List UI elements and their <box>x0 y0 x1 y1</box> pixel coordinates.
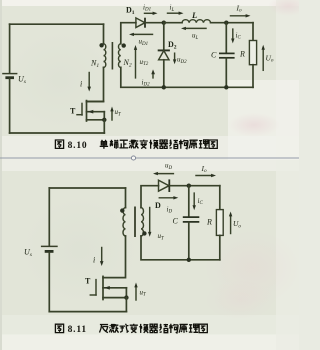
svg-text:L: L <box>191 10 197 20</box>
label N1 <box>90 59 99 70</box>
battery Us <box>2 24 17 133</box>
svg-text:i: i <box>80 80 82 89</box>
node dot D2 bottom <box>162 85 166 89</box>
label Us <box>18 75 26 86</box>
label uL <box>192 32 199 41</box>
svg-text:R: R <box>239 49 245 58</box>
current arrow iD (8.11) <box>159 196 178 199</box>
label D1 <box>126 6 135 17</box>
current arrow Io <box>231 14 251 17</box>
current arrow i <box>87 73 91 92</box>
label D2 <box>168 40 177 51</box>
capacitor C <box>219 23 235 88</box>
label C (8.11) <box>173 216 179 225</box>
label uT secondary (8.11) <box>158 232 166 241</box>
voltage arrow uT secondary (8.11) <box>148 208 151 237</box>
label T <box>70 107 76 116</box>
label iD2 <box>142 78 151 87</box>
wire bottom rail primary <box>10 132 105 134</box>
wire top rail primary (fig 8.11) <box>49 187 125 189</box>
label C <box>211 51 217 60</box>
svg-text:8.10: 8.10 <box>68 141 88 151</box>
svg-text:T: T <box>85 277 91 286</box>
label i <box>80 80 82 89</box>
label uT2 <box>140 58 149 67</box>
transformer winding N2 <box>119 44 121 68</box>
label uT mosfet (8.11) <box>140 288 148 297</box>
label uD2 <box>177 56 187 65</box>
svg-text:C: C <box>211 51 217 60</box>
node dot D-C junction (8.11) <box>187 184 191 188</box>
divider circle mark <box>131 156 135 160</box>
node dot D1-D2 junction <box>162 21 166 25</box>
resistor R (8.11) <box>216 186 223 260</box>
label uT <box>115 108 123 117</box>
label iL <box>170 4 175 13</box>
svg-text:i: i <box>93 256 95 265</box>
voltage arrow uD1 <box>129 33 153 36</box>
page divider rule <box>0 157 299 159</box>
wire top rail primary (fig 8.10) <box>10 23 104 25</box>
label L <box>191 10 197 20</box>
node dot C bottom (8.11) <box>187 258 191 262</box>
svg-text:C: C <box>173 216 179 225</box>
voltage arrow Uo (8.11) <box>229 212 232 234</box>
label uD (8.11) <box>165 162 173 171</box>
label N2 <box>123 58 132 69</box>
voltage arrow uT mosfet (8.11) <box>134 283 137 301</box>
node dot C bottom <box>224 85 228 89</box>
voltage arrow uD2 <box>173 53 176 64</box>
inductor L <box>164 20 253 23</box>
label Us (8.11) <box>24 248 32 259</box>
current arrow iD2 <box>151 69 155 78</box>
current arrow iD1 <box>145 12 158 15</box>
transformer winding N1 <box>104 44 106 68</box>
voltage arrow Uo <box>262 45 265 71</box>
label iD1 <box>143 3 151 12</box>
MOSFET T (8.11) <box>90 276 128 311</box>
wire bottom rail primary (8.11) <box>49 311 126 313</box>
wire primary top lead <box>103 24 105 44</box>
wire primary top lead (8.11) <box>125 188 127 208</box>
capacitor C (8.11) <box>183 186 200 260</box>
label Uo (8.11) <box>233 219 241 229</box>
label D (8.11) <box>155 201 161 210</box>
caption figure 8.11 <box>55 324 207 335</box>
current arrow i (8.11) <box>100 248 104 267</box>
wire primary bottom lead to drain (8.11) <box>103 236 126 278</box>
polarity dot primary <box>99 43 103 47</box>
wire primary bottom lead to drain <box>87 67 104 101</box>
current arrow iC (8.11) <box>193 193 196 210</box>
voltage arrow uT2 <box>134 45 137 78</box>
label R (8.11) <box>206 218 212 227</box>
label i (8.11) <box>93 256 95 265</box>
label T (8.11) <box>85 277 91 286</box>
current arrow Io (8.11) <box>196 174 216 177</box>
label uD1 <box>139 38 149 47</box>
diode D (8.11) <box>159 179 220 192</box>
wire bottom rail secondary <box>121 67 253 87</box>
label R <box>239 49 245 58</box>
label Io <box>236 3 243 13</box>
current arrow iC <box>231 29 234 43</box>
svg-text:T: T <box>70 107 76 116</box>
diode D1 <box>136 18 164 28</box>
polarity dot secondary (8.11) <box>142 231 146 235</box>
wire bottom rail secondary (8.11) <box>141 236 220 260</box>
battery Us (8.11) <box>41 188 58 312</box>
transformer winding primary (8.11) <box>123 208 126 236</box>
node dot L-C junction <box>224 21 228 25</box>
wire secondary top lead <box>121 23 136 44</box>
svg-text:D: D <box>155 201 161 210</box>
label Io (8.11) <box>201 164 208 174</box>
svg-text:8.11: 8.11 <box>68 325 87 335</box>
voltage arrow uL <box>181 27 206 30</box>
MOSFET T (fig 8.10) <box>77 101 107 133</box>
label Uo <box>266 53 274 63</box>
label iC <box>236 31 242 40</box>
current arrow iL <box>168 12 184 15</box>
voltage arrow uD (8.11) <box>153 172 173 175</box>
caption figure 8.10 <box>55 140 217 151</box>
diode D2 freewheeling <box>158 23 170 88</box>
label iD (8.11) <box>167 205 173 214</box>
polarity dot secondary <box>122 43 126 47</box>
svg-text:R: R <box>206 218 212 227</box>
resistor R <box>249 23 256 88</box>
polarity dot primary (8.11) <box>120 208 124 212</box>
transformer core (8.11) <box>134 207 136 238</box>
transformer core <box>111 42 113 70</box>
wire secondary top lead (8.11) <box>141 186 159 208</box>
transformer winding secondary (8.11) <box>141 208 144 236</box>
label iC (8.11) <box>198 197 204 206</box>
voltage arrow uT <box>110 107 113 121</box>
